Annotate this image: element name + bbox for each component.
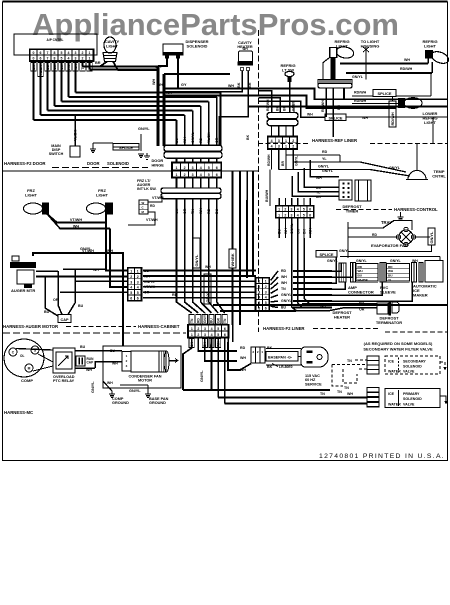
svg-text:2: 2: [197, 333, 199, 337]
svg-text:GN/YL: GN/YL: [318, 165, 330, 169]
svg-text:3: 3: [278, 139, 280, 143]
svg-text:6: 6: [309, 208, 311, 212]
svg-text:OL: OL: [20, 354, 24, 358]
svg-text:VALVE: VALVE: [403, 403, 415, 407]
svg-text:1: 1: [89, 57, 91, 61]
svg-text:0: 0: [33, 51, 35, 55]
svg-text:4: 4: [271, 139, 273, 143]
svg-text:CAP: CAP: [60, 318, 68, 322]
svg-text:SECONDARY: SECONDARY: [403, 360, 426, 364]
svg-text:4: 4: [271, 145, 273, 149]
svg-text:HARNESS-CONTROL: HARNESS-CONTROL: [394, 207, 438, 212]
svg-text:GR: GR: [53, 64, 57, 70]
svg-text:0: 0: [33, 57, 35, 61]
svg-text:RD: RD: [240, 346, 246, 350]
svg-text:6: 6: [216, 173, 218, 177]
svg-text:5: 5: [61, 51, 63, 55]
svg-text:4: 4: [265, 296, 267, 300]
svg-text:MOTOR: MOTOR: [138, 379, 152, 383]
svg-text:5: 5: [208, 166, 210, 170]
svg-text:2: 2: [130, 275, 132, 279]
svg-text:COMP: COMP: [21, 378, 33, 383]
svg-text:VALVE: VALVE: [403, 370, 415, 374]
svg-text:WH: WH: [74, 64, 78, 70]
svg-text:BU: BU: [281, 306, 287, 310]
svg-text:RD/WH: RD/WH: [400, 67, 413, 71]
svg-text:2: 2: [284, 208, 286, 212]
svg-text:WH: WH: [112, 362, 118, 366]
svg-text:1: 1: [285, 145, 287, 149]
svg-text:GN/YL: GN/YL: [356, 259, 368, 263]
svg-text:GN/YL: GN/YL: [91, 381, 95, 393]
svg-text:ICE: ICE: [388, 392, 395, 396]
svg-text:GN/YL: GN/YL: [339, 249, 351, 253]
svg-text:GN/YL: GN/YL: [80, 247, 92, 251]
svg-text:6: 6: [40, 51, 42, 55]
svg-text:W: W: [142, 201, 145, 205]
svg-text:BK: BK: [237, 82, 241, 88]
svg-text:ICE: ICE: [388, 360, 395, 364]
svg-text:GN/YL: GN/YL: [281, 293, 293, 297]
svg-text:RD: RD: [172, 293, 178, 297]
svg-text:GROUND: GROUND: [112, 401, 129, 405]
svg-text:WH: WH: [358, 269, 364, 273]
svg-text:1: 1: [265, 280, 267, 284]
svg-text:6: 6: [309, 213, 311, 217]
svg-text:RD/WH: RD/WH: [354, 99, 367, 103]
svg-text:LIGHT: LIGHT: [424, 43, 437, 48]
svg-text:INT'LK SW.: INT'LK SW.: [137, 187, 157, 191]
svg-text:BU: BU: [210, 318, 214, 323]
svg-text:4: 4: [130, 286, 132, 290]
svg-text:3: 3: [130, 280, 132, 284]
svg-text:RD/WH: RD/WH: [390, 112, 395, 125]
svg-text:2: 2: [184, 166, 186, 170]
svg-text:GN/YL: GN/YL: [429, 231, 434, 244]
svg-text:OR: OR: [60, 64, 64, 70]
svg-text:2: 2: [82, 57, 84, 61]
svg-text:OR: OR: [53, 298, 59, 302]
svg-text:6: 6: [216, 166, 218, 170]
svg-text:GN/YL: GN/YL: [129, 389, 141, 393]
svg-text:BU/WH: BU/WH: [265, 189, 269, 202]
svg-text:GN/YL: GN/YL: [200, 370, 204, 382]
svg-text:3: 3: [291, 208, 293, 212]
svg-text:PTC RELAY: PTC RELAY: [53, 379, 75, 383]
svg-text:AUGER MTR: AUGER MTR: [11, 288, 35, 293]
svg-text:TN: TN: [190, 318, 194, 323]
svg-text:TN: TN: [347, 359, 352, 363]
svg-text:SPLICE: SPLICE: [328, 115, 342, 120]
svg-text:RD: RD: [358, 265, 363, 269]
svg-text:WATER: WATER: [388, 403, 401, 407]
svg-text:RD/WH: RD/WH: [354, 91, 367, 95]
svg-text:3: 3: [192, 166, 194, 170]
svg-text:RD: RD: [322, 150, 328, 154]
svg-text:2: 2: [184, 173, 186, 177]
svg-text:HARNESS-F2 LINER: HARNESS-F2 LINER: [263, 326, 305, 331]
svg-text:RD/WH: RD/WH: [267, 154, 271, 166]
svg-text:7: 7: [47, 51, 49, 55]
svg-text:2: 2: [258, 285, 260, 289]
svg-text:WH: WH: [307, 113, 313, 117]
svg-text:RD/WH: RD/WH: [266, 99, 270, 111]
svg-text:6: 6: [40, 57, 42, 61]
svg-text:BU: BU: [110, 349, 115, 353]
svg-text:SERVICE: SERVICE: [305, 382, 322, 386]
svg-text:2: 2: [292, 139, 294, 143]
svg-text:GN/YL: GN/YL: [327, 259, 339, 263]
svg-text:M: M: [28, 367, 31, 371]
svg-text:WH: WH: [242, 47, 248, 51]
svg-text:RD: RD: [150, 204, 155, 208]
svg-text:12740801 PRINTED IN U.S.A.: 12740801 PRINTED IN U.S.A.: [319, 453, 445, 460]
svg-text:GN/YL: GN/YL: [203, 313, 207, 323]
svg-text:1: 1: [191, 327, 193, 331]
svg-text:CNTRL: CNTRL: [432, 173, 446, 178]
svg-text:4: 4: [297, 208, 299, 212]
svg-text:4: 4: [297, 213, 299, 217]
svg-text:1: 1: [278, 208, 280, 212]
svg-text:2: 2: [137, 275, 139, 279]
svg-text:TN: TN: [337, 390, 342, 394]
svg-text:BU: BU: [175, 137, 179, 143]
svg-text:WH: WH: [347, 392, 353, 396]
svg-text:GN/YL: GN/YL: [281, 299, 293, 303]
svg-text:SPLICE: SPLICE: [377, 91, 391, 96]
svg-text:WH: WH: [107, 381, 113, 385]
svg-text:SECONDARY WATER FILTER VALV: SECONDARY WATER FILTER VALVE: [363, 347, 433, 352]
svg-text:GN/YL: GN/YL: [322, 169, 334, 173]
svg-text:TN: TN: [320, 392, 325, 396]
svg-text:(AS REQUIRED ON SOME MODELS): (AS REQUIRED ON SOME MODELS): [364, 341, 433, 346]
svg-text:GROUND: GROUND: [149, 401, 166, 405]
svg-text:TERMINATOR: TERMINATOR: [376, 320, 402, 325]
svg-text:WH: WH: [228, 84, 234, 88]
svg-text:CONNECTOR: CONNECTOR: [348, 289, 374, 294]
svg-text:EVAPORATOR FAN: EVAPORATOR FAN: [371, 243, 408, 248]
svg-text:3: 3: [204, 333, 206, 337]
svg-text:BK: BK: [276, 106, 280, 111]
svg-text:YL/BK: YL/BK: [207, 132, 211, 143]
svg-text:LIGHT: LIGHT: [424, 120, 437, 125]
svg-text:4: 4: [211, 327, 213, 331]
svg-text:BU: BU: [388, 274, 393, 278]
svg-text:4: 4: [200, 166, 202, 170]
svg-text:GN/YL: GN/YL: [295, 156, 299, 166]
svg-text:WH: WH: [281, 275, 287, 279]
svg-text:YL: YL: [322, 157, 327, 161]
svg-text:4: 4: [211, 333, 213, 337]
svg-text:6: 6: [258, 307, 260, 311]
svg-text:YL: YL: [388, 278, 392, 282]
svg-text:TIMER: TIMER: [346, 208, 359, 213]
svg-text:2: 2: [197, 327, 199, 331]
svg-text:PRIMARY: PRIMARY: [403, 392, 420, 396]
svg-text:OR: OR: [215, 137, 219, 143]
svg-text:1: 1: [176, 166, 178, 170]
svg-text:5: 5: [208, 173, 210, 177]
svg-text:3: 3: [137, 280, 139, 284]
svg-text:BK: BK: [246, 134, 250, 140]
svg-text:WH: WH: [152, 79, 156, 85]
svg-text:MAKER: MAKER: [413, 292, 428, 297]
svg-text:HINGE: HINGE: [152, 163, 165, 168]
svg-text:GN/YL: GN/YL: [191, 131, 195, 143]
svg-text:DOOR: DOOR: [87, 161, 100, 166]
svg-text:3: 3: [291, 213, 293, 217]
svg-text:1: 1: [278, 213, 280, 217]
svg-text:4: 4: [68, 57, 70, 61]
svg-text:BR: BR: [281, 161, 285, 166]
svg-text:GY: GY: [181, 83, 187, 87]
svg-text:WH: WH: [281, 281, 287, 285]
svg-text:WH/BK: WH/BK: [230, 253, 235, 266]
svg-text:SOLENOID: SOLENOID: [403, 397, 422, 401]
svg-text:HARNESS-F2 DOOR: HARNESS-F2 DOOR: [4, 161, 46, 166]
svg-text:4: 4: [200, 173, 202, 177]
svg-text:GN/YL: GN/YL: [138, 127, 150, 131]
svg-text:GR: GR: [216, 317, 220, 323]
svg-text:GN/YL: GN/YL: [194, 254, 199, 267]
svg-text:A/P CNTRL: A/P CNTRL: [47, 38, 64, 42]
svg-text:1: 1: [285, 139, 287, 143]
svg-text:WH: WH: [388, 269, 394, 273]
svg-text:VT/WH: VT/WH: [146, 218, 158, 222]
svg-text:VT/WH: VT/WH: [70, 218, 82, 222]
svg-text:8: 8: [54, 57, 56, 61]
svg-text:PK: PK: [67, 65, 71, 70]
svg-text:GN/YL: GN/YL: [390, 259, 402, 263]
svg-text:SOLENOID: SOLENOID: [107, 161, 129, 166]
svg-text:CAP: CAP: [87, 361, 95, 365]
svg-text:1: 1: [137, 270, 139, 274]
svg-text:HARNESS-MC: HARNESS-MC: [4, 410, 33, 415]
svg-text:BU: BU: [44, 310, 50, 314]
svg-text:5: 5: [303, 213, 305, 217]
svg-text:SPLICE: SPLICE: [319, 252, 333, 257]
svg-text:LIGHT: LIGHT: [106, 43, 119, 48]
svg-text:RD: RD: [199, 137, 203, 143]
svg-text:5: 5: [130, 291, 132, 295]
svg-text:BU: BU: [358, 274, 363, 278]
svg-text:1: 1: [176, 173, 178, 177]
svg-text:WH: WH: [404, 58, 410, 62]
svg-text:1: 1: [89, 51, 91, 55]
svg-text:LIGHT: LIGHT: [96, 192, 109, 197]
svg-text:BR: BR: [95, 61, 101, 65]
svg-text:WATER: WATER: [388, 370, 401, 374]
svg-text:GN/YL: GN/YL: [352, 75, 364, 79]
svg-text:BK: BK: [32, 64, 36, 69]
svg-text:SWITCH: SWITCH: [49, 152, 64, 156]
svg-text:HARNESS-REF LINER: HARNESS-REF LINER: [312, 138, 358, 143]
svg-text:2: 2: [284, 213, 286, 217]
svg-text:WH: WH: [205, 265, 211, 269]
svg-text:3: 3: [258, 290, 260, 294]
svg-text:BU: BU: [80, 345, 86, 349]
svg-text:BR: BR: [283, 106, 287, 111]
svg-text:TN: TN: [223, 318, 227, 323]
svg-text:3: 3: [278, 145, 280, 149]
svg-text:3: 3: [75, 57, 77, 61]
svg-text:1: 1: [130, 270, 132, 274]
svg-text:HARNESS-CABINET: HARNESS-CABINET: [138, 324, 180, 329]
svg-text:RD: RD: [388, 265, 393, 269]
svg-text:5: 5: [217, 333, 219, 337]
svg-text:7: 7: [47, 57, 49, 61]
svg-text:8: 8: [54, 51, 56, 55]
svg-text:BU: BU: [46, 64, 50, 69]
svg-text:LIGHT: LIGHT: [25, 192, 38, 197]
svg-text:3: 3: [75, 51, 77, 55]
svg-text:6: 6: [224, 327, 226, 331]
svg-text:RD: RD: [197, 318, 201, 323]
svg-text:WH: WH: [183, 137, 187, 143]
svg-text:2: 2: [292, 145, 294, 149]
svg-text:3: 3: [265, 290, 267, 294]
svg-text:AppliancePartsPros.com: AppliancePartsPros.com: [32, 7, 399, 42]
svg-text:2: 2: [265, 285, 267, 289]
svg-text:WH: WH: [240, 356, 246, 360]
svg-text:5: 5: [61, 57, 63, 61]
svg-text:BU: BU: [78, 304, 84, 308]
svg-text:WH/BK: WH/BK: [358, 278, 369, 282]
svg-text:4: 4: [258, 296, 260, 300]
svg-text:GN/YL: GN/YL: [205, 290, 210, 303]
svg-text:6: 6: [137, 297, 139, 301]
svg-text:SOLENOID: SOLENOID: [187, 43, 208, 48]
svg-text:BASEPAN -G-: BASEPAN -G-: [268, 356, 293, 360]
svg-text:HEATER: HEATER: [334, 314, 350, 319]
svg-text:1: 1: [258, 280, 260, 284]
svg-text:5: 5: [217, 327, 219, 331]
svg-text:TN: TN: [344, 386, 349, 390]
svg-text:TN: TN: [281, 287, 286, 291]
svg-text:5: 5: [303, 208, 305, 212]
svg-text:HARNESS-AUGER MOTOR: HARNESS-AUGER MOTOR: [3, 324, 59, 329]
svg-text:2: 2: [82, 51, 84, 55]
svg-text:6: 6: [265, 307, 267, 311]
svg-text:RD: RD: [281, 269, 287, 273]
svg-text:YL/BK: YL/BK: [39, 65, 43, 76]
svg-text:6: 6: [224, 333, 226, 337]
svg-text:3: 3: [192, 173, 194, 177]
svg-text:3: 3: [204, 327, 206, 331]
svg-text:1: 1: [191, 333, 193, 337]
svg-text:5: 5: [137, 291, 139, 295]
svg-text:4: 4: [137, 286, 139, 290]
svg-text:SOLENOID: SOLENOID: [403, 365, 422, 369]
svg-text:6: 6: [130, 297, 132, 301]
svg-text:4: 4: [68, 51, 70, 55]
